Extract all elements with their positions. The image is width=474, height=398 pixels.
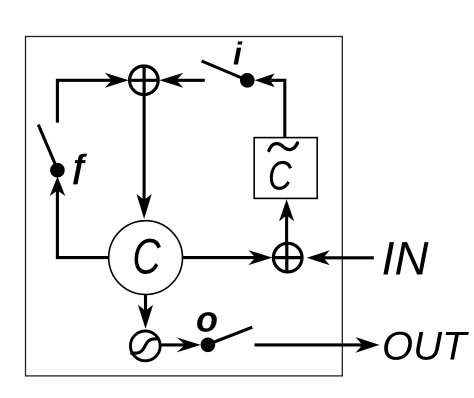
arrowhead into adder 1 from left bbox=[105, 73, 129, 88]
arrowhead into switch f dot bbox=[50, 177, 66, 197]
switch f contact dot bbox=[50, 163, 65, 178]
svg-text:OUT: OUT bbox=[382, 325, 469, 369]
switch o lever bbox=[209, 327, 252, 344]
switch i contact dot bbox=[240, 73, 255, 88]
svg-text:IN: IN bbox=[382, 232, 429, 285]
arrowhead into cell C from adder 1 bbox=[137, 194, 152, 219]
svg-text:C: C bbox=[132, 229, 161, 285]
wire adder 2 up to candidate box bbox=[285, 215, 288, 243]
wire switch o to OUT bbox=[255, 343, 363, 346]
arrowhead to OUT bbox=[356, 337, 380, 353]
adder 1 circle bbox=[130, 66, 159, 95]
arrowhead into squash from cell C bbox=[138, 305, 153, 329]
squash sigmoid curve bbox=[130, 339, 159, 353]
arrowhead into switch i dot bbox=[255, 74, 275, 88]
arrowhead into switch o dot bbox=[177, 337, 201, 352]
cell circle C bbox=[109, 221, 183, 295]
wire IN to adder 2 bbox=[323, 256, 373, 259]
svg-text:C: C bbox=[268, 153, 292, 199]
wire cell C down to squash bbox=[144, 294, 147, 311]
squash circle bbox=[130, 331, 160, 361]
wire squash to switch o bbox=[162, 343, 186, 346]
wire from switch i to adder bbox=[177, 79, 205, 82]
arrowhead into adder 1 from right bbox=[159, 73, 183, 88]
switch f lever bbox=[38, 125, 56, 167]
candidate tilde bbox=[269, 143, 298, 151]
wire recurrent loop top-left to adder bbox=[57, 80, 112, 122]
wire adder down to cell C bbox=[143, 65, 146, 200]
wire cell C to adder 2 bbox=[183, 256, 256, 259]
switch i lever bbox=[202, 61, 246, 80]
adder 1 plus cross bbox=[128, 65, 159, 96]
svg-text:i: i bbox=[233, 36, 243, 72]
svg-text:o: o bbox=[196, 299, 218, 340]
adder 2 circle bbox=[273, 243, 302, 272]
arrowhead into candidate box from adder 2 bbox=[279, 199, 294, 221]
candidate box bbox=[254, 138, 317, 199]
wire from candidate box branch to switch i bbox=[271, 80, 285, 138]
svg-text:ƒ: ƒ bbox=[70, 148, 88, 185]
adder 2 plus cross bbox=[272, 242, 303, 273]
switch o contact dot bbox=[201, 338, 216, 353]
cell boundary frame bbox=[26, 37, 343, 376]
arrowhead into adder 2 from IN bbox=[307, 250, 330, 265]
arrowhead into adder 2 from cell C bbox=[248, 250, 272, 265]
wire cell C left to forget switch bbox=[57, 190, 109, 258]
